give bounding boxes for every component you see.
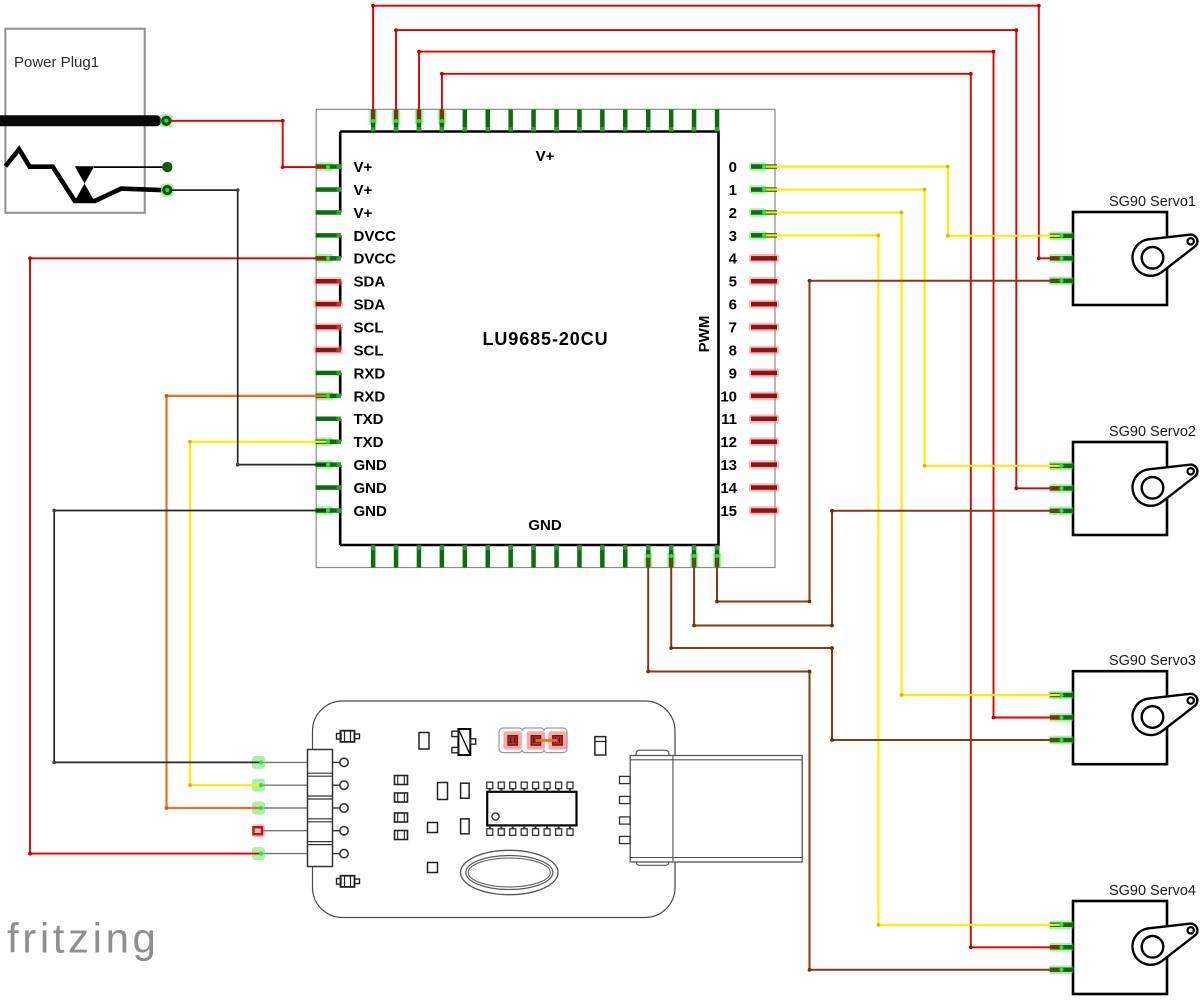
svg-text:SG90 Servo2: SG90 Servo2 xyxy=(1109,424,1196,440)
svg-text:12: 12 xyxy=(720,434,737,451)
svg-text:V+: V+ xyxy=(354,159,373,176)
svg-text:8: 8 xyxy=(729,342,737,359)
svg-text:DVCC: DVCC xyxy=(354,228,397,245)
svg-text:Power Plug1: Power Plug1 xyxy=(14,54,99,71)
svg-text:GND: GND xyxy=(354,503,388,520)
svg-text:TXD: TXD xyxy=(354,411,384,428)
svg-text:11: 11 xyxy=(721,411,737,428)
svg-text:TXD: TXD xyxy=(354,434,384,451)
svg-text:2: 2 xyxy=(729,205,737,222)
svg-text:9: 9 xyxy=(729,365,737,382)
svg-text:7: 7 xyxy=(729,320,737,337)
svg-text:10: 10 xyxy=(720,388,737,405)
svg-text:GND: GND xyxy=(528,517,562,534)
svg-text:1: 1 xyxy=(729,182,737,199)
svg-text:fritzing: fritzing xyxy=(7,915,160,962)
svg-text:GND: GND xyxy=(354,480,388,497)
svg-text:SDA: SDA xyxy=(354,274,386,291)
svg-text:PWM: PWM xyxy=(696,316,713,353)
svg-text:SG90 Servo3: SG90 Servo3 xyxy=(1109,653,1196,669)
svg-text:SDA: SDA xyxy=(354,297,386,314)
svg-text:LU9685-20CU: LU9685-20CU xyxy=(483,329,609,349)
svg-text:SCL: SCL xyxy=(354,342,384,359)
svg-text:DVCC: DVCC xyxy=(354,251,397,268)
svg-text:SG90 Servo1: SG90 Servo1 xyxy=(1109,194,1196,210)
svg-text:4: 4 xyxy=(729,251,738,268)
svg-text:RXD: RXD xyxy=(354,365,386,382)
svg-text:V+: V+ xyxy=(536,148,555,165)
svg-text:GND: GND xyxy=(354,457,388,474)
svg-text:SG90 Servo4: SG90 Servo4 xyxy=(1109,883,1196,899)
svg-text:3: 3 xyxy=(729,228,737,245)
svg-text:14: 14 xyxy=(720,480,737,497)
svg-text:0: 0 xyxy=(729,159,737,176)
svg-text:15: 15 xyxy=(720,503,737,520)
svg-text:6: 6 xyxy=(729,297,737,314)
svg-text:SCL: SCL xyxy=(354,320,384,337)
svg-text:V+: V+ xyxy=(354,205,373,222)
svg-text:13: 13 xyxy=(720,457,737,474)
svg-text:RXD: RXD xyxy=(354,388,386,405)
svg-text:V+: V+ xyxy=(354,182,373,199)
svg-text:5: 5 xyxy=(729,274,737,291)
